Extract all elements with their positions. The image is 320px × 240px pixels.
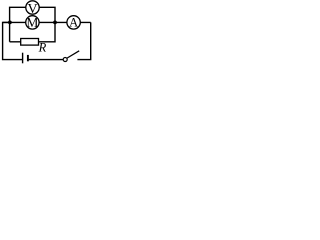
switch blade	[67, 51, 79, 58]
junction dot at cross node	[53, 21, 57, 25]
wire: right side down from A row to switch right terminal	[77, 22, 90, 59]
junction dot on left bus	[8, 21, 12, 25]
wire: battery to switch segment	[28, 59, 63, 61]
voltmeter V circle	[26, 1, 39, 14]
ammeter A circle	[67, 16, 80, 29]
svg-text:R: R	[38, 41, 47, 55]
svg-text:M: M	[26, 15, 38, 30]
wire: outer left branch from junction down to battery	[3, 22, 23, 59]
svg-text:A: A	[69, 16, 78, 30]
battery long plate	[22, 53, 24, 64]
wire: inner loop (left bus, top wire, V-branch vertical, R-branch wire)	[10, 7, 55, 42]
battery short plate	[27, 55, 29, 61]
motor M circle	[26, 16, 39, 29]
wire: middle horizontal row through M and A	[3, 21, 91, 23]
resistor R box	[21, 39, 39, 46]
switch pivot circle	[63, 58, 67, 62]
